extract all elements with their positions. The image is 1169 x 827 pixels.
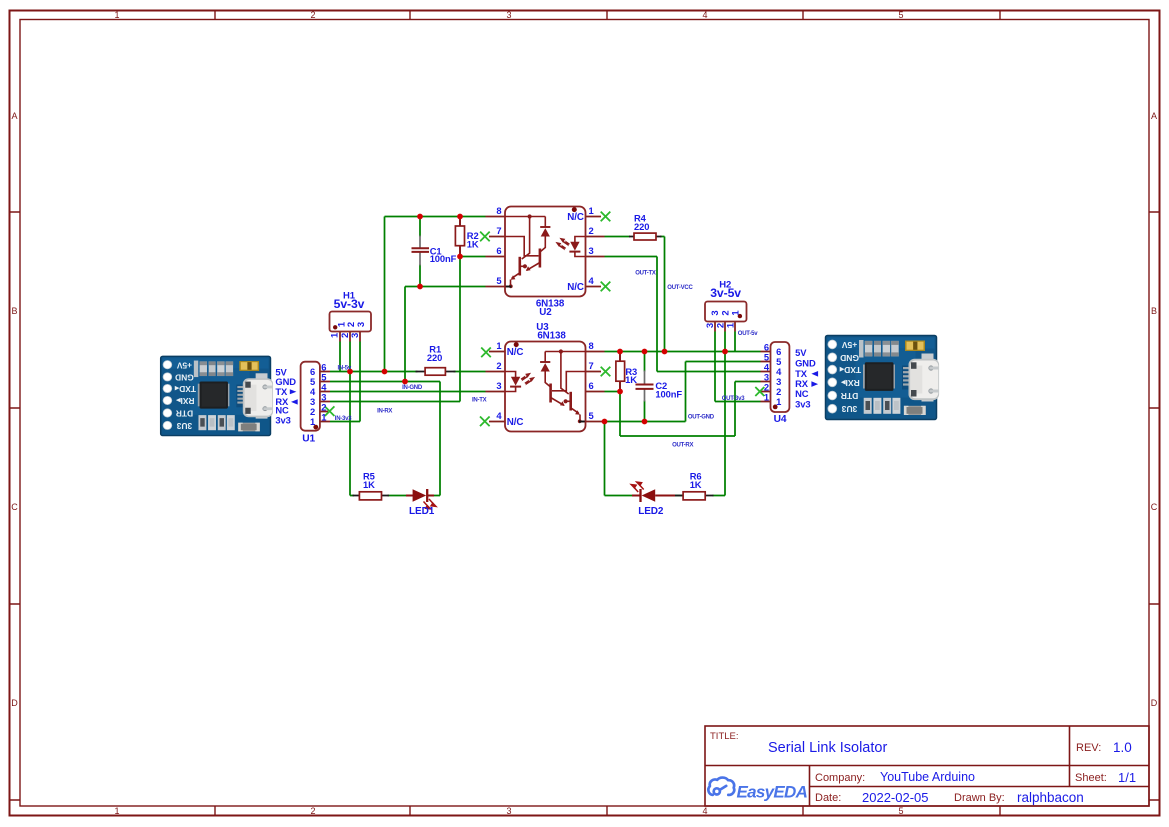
wire U2 pin6 row <box>460 256 486 258</box>
svg-text:4: 4 <box>589 275 595 286</box>
svg-text:7: 7 <box>589 360 594 371</box>
H1 pin digits inside <box>337 321 367 327</box>
U3 pin numbers <box>496 340 502 421</box>
svg-text:4: 4 <box>496 410 502 421</box>
U2 pin numbers <box>496 205 501 286</box>
title block <box>705 726 1149 806</box>
svg-text:1/1: 1/1 <box>1118 770 1136 785</box>
no-connect X U1 pin2 <box>325 406 335 416</box>
svg-text:LED2: LED2 <box>638 506 664 517</box>
wire LED2 bottom run <box>605 495 726 497</box>
U1 pin name numbers <box>310 366 316 427</box>
resistor R4 body <box>634 233 656 240</box>
svg-text:5: 5 <box>589 410 594 421</box>
svg-text:1.0: 1.0 <box>1113 740 1132 755</box>
U1 side labels <box>275 366 296 425</box>
no-connect X U2 pin7 <box>480 232 490 242</box>
wire C1 stem <box>419 217 421 287</box>
svg-text:OUT-5v: OUT-5v <box>738 331 758 337</box>
svg-text:Company:: Company: <box>815 772 865 784</box>
U2 pin1 marker dot <box>572 207 577 212</box>
svg-text:2: 2 <box>310 806 315 816</box>
svg-text:U1: U1 <box>302 433 315 444</box>
svg-text:8: 8 <box>589 340 594 351</box>
wire C2 stem <box>644 352 646 422</box>
svg-text:220: 220 <box>427 352 442 363</box>
net labels <box>335 271 758 449</box>
wire OUT-TX (U2 pin3 to U4 pin4) <box>605 257 761 372</box>
svg-text:D: D <box>1151 698 1158 708</box>
capacitor C1 plates <box>412 248 430 252</box>
capacitor C1 leads <box>419 236 421 266</box>
svg-text:2022-02-05: 2022-02-05 <box>862 790 929 805</box>
wire U2 pin5 row <box>405 286 486 288</box>
svg-text:3: 3 <box>589 245 594 256</box>
U4 side labels <box>795 347 816 409</box>
U3 internals (mirrored) <box>505 349 586 423</box>
svg-text:3: 3 <box>356 322 367 327</box>
svg-text:1K: 1K <box>363 479 375 490</box>
svg-text:IN-3v3: IN-3v3 <box>335 416 352 422</box>
wire IN-RX (U1 pin3 to U2 pin6 riser) <box>330 401 460 403</box>
svg-text:N/C: N/C <box>507 347 524 358</box>
wire riser U2 pin6 to IN-RX <box>459 257 461 402</box>
capacitor C2 leads <box>644 371 646 402</box>
svg-text:EasyEDA: EasyEDA <box>737 783 808 802</box>
svg-text:N/C: N/C <box>567 282 584 293</box>
wire IN-3v3 (U1 pin1 to H1 pin3) <box>330 421 360 423</box>
wire H1 pin3 riser <box>359 342 361 422</box>
wire U2 pin2 to R4 <box>605 236 665 238</box>
EasyEDA logo <box>708 778 807 802</box>
wire LED1 bottom run <box>350 495 440 497</box>
svg-text:OUT-TX: OUT-TX <box>635 271 656 277</box>
U4 pin name numbers <box>776 346 782 407</box>
H2 pin stubs <box>715 322 735 332</box>
svg-text:2: 2 <box>496 360 501 371</box>
resistor R3 body <box>616 361 625 381</box>
resistor R4 leads <box>629 236 662 238</box>
U1 RX arrow <box>291 399 298 404</box>
LED2 <box>631 482 675 502</box>
U2 pin stubs <box>486 217 605 287</box>
svg-text:U4: U4 <box>774 414 787 425</box>
H1 pin digits outside <box>330 332 362 338</box>
svg-text:D: D <box>11 698 18 708</box>
wire IN-5v horizontal (U1 pin6 to R1 to U3 pin2) <box>330 371 486 373</box>
svg-text:GND: GND <box>795 357 816 368</box>
svg-text:8: 8 <box>496 205 501 216</box>
svg-text:C: C <box>11 502 18 512</box>
svg-text:220: 220 <box>634 221 649 232</box>
svg-text:1: 1 <box>764 392 769 403</box>
header H2 body <box>705 302 747 322</box>
U4 pin numbers outside <box>764 342 770 403</box>
svg-text:U2: U2 <box>539 307 552 318</box>
svg-text:5v-3v: 5v-3v <box>334 297 365 311</box>
resistor R5 leads <box>353 495 390 497</box>
wire H2 pin1 riser OUT-5v <box>734 332 736 352</box>
no-connect X U4 pin2 <box>755 387 764 396</box>
svg-text:5: 5 <box>898 806 903 816</box>
wire IN-GND horizontal <box>330 381 440 383</box>
svg-text:A: A <box>11 111 17 121</box>
svg-text:6: 6 <box>589 380 594 391</box>
svg-text:3v3: 3v3 <box>795 399 810 410</box>
N/C labels U3 <box>507 347 524 428</box>
svg-text:1: 1 <box>776 396 781 407</box>
N/C labels U2 <box>567 212 584 293</box>
svg-text:B: B <box>1151 306 1157 316</box>
svg-text:100nF: 100nF <box>430 253 457 264</box>
svg-text:7: 7 <box>496 225 501 236</box>
resistor R2 body <box>455 226 464 246</box>
wire OUT-RX (U3 pin6 to U4 pin3) <box>620 382 761 437</box>
svg-text:1: 1 <box>321 412 326 423</box>
svg-text:Serial Link Isolator: Serial Link Isolator <box>768 740 887 756</box>
svg-text:ralphbacon: ralphbacon <box>1017 790 1084 805</box>
svg-text:B: B <box>11 306 17 316</box>
H2 pin1 marker dot <box>738 314 742 318</box>
U4 RX arrow <box>811 381 818 387</box>
junction dots <box>347 214 728 425</box>
wire OUT-VCC riser (R4 to OUT rail) <box>664 237 666 352</box>
U1 pin1 marker dot <box>313 425 318 430</box>
resistor R6 leads <box>674 495 714 497</box>
connector U4 body <box>771 342 790 412</box>
svg-text:C: C <box>1151 502 1158 512</box>
resistor R1 body <box>425 368 445 376</box>
U3 pin5 black tick <box>579 421 585 423</box>
wire U2 vcc rail top <box>385 216 486 218</box>
wire IN-GND riser to LED1 cathode <box>439 382 441 496</box>
svg-text:OUT-3v3: OUT-3v3 <box>722 396 746 402</box>
wire H1 pin1 riser <box>339 342 341 372</box>
svg-text:A: A <box>1151 111 1157 121</box>
connector U1 body <box>301 362 320 431</box>
svg-text:1K: 1K <box>690 479 702 490</box>
U4 pin stubs <box>761 352 771 402</box>
resistor R1 leads <box>416 371 456 373</box>
svg-text:3: 3 <box>506 806 511 816</box>
svg-text:IN-5v: IN-5v <box>338 365 352 371</box>
U3 pin1 marker dot <box>514 342 519 347</box>
resistor R3 leads <box>619 352 621 392</box>
svg-text:IN-TX: IN-TX <box>472 397 487 403</box>
no-connect X U3 pin4 <box>480 417 490 427</box>
H1 pin1 marker dot <box>333 325 337 329</box>
svg-text:2: 2 <box>589 225 594 236</box>
svg-text:6: 6 <box>496 245 501 256</box>
svg-text:1K: 1K <box>467 238 479 249</box>
svg-text:REV:: REV: <box>1076 742 1101 754</box>
svg-text:1: 1 <box>589 205 594 216</box>
svg-text:TITLE:: TITLE: <box>710 731 739 742</box>
svg-text:4: 4 <box>702 806 707 816</box>
wire U3 pin6 row <box>605 391 621 393</box>
resistor R6 body <box>683 492 705 500</box>
wire U2 pin5 riser to IN-GND <box>404 287 406 382</box>
svg-text:Drawn By:: Drawn By: <box>954 792 1005 804</box>
svg-text:1: 1 <box>726 322 737 328</box>
U4 pin1 marker dot <box>773 405 778 410</box>
wire LED2 left riser <box>604 422 606 496</box>
svg-text:1: 1 <box>114 806 119 816</box>
U3 pin stubs <box>486 352 605 422</box>
svg-text:IN-GND: IN-GND <box>402 385 423 391</box>
H1 pin stubs <box>340 332 360 342</box>
header H1 body <box>330 312 372 332</box>
svg-text:3: 3 <box>350 333 361 338</box>
no-connect X flags <box>325 212 765 427</box>
svg-text:3: 3 <box>506 10 511 20</box>
op-amp U3 optocoupler 6N138 body <box>505 342 586 432</box>
svg-text:3: 3 <box>496 380 501 391</box>
svg-text:1: 1 <box>731 310 742 316</box>
svg-text:N/C: N/C <box>567 212 584 223</box>
module photo left (CP2102 USB-serial) <box>161 356 273 435</box>
svg-text:YouTube Arduino: YouTube Arduino <box>880 770 975 784</box>
svg-text:2: 2 <box>310 10 315 20</box>
svg-text:1: 1 <box>114 10 119 20</box>
no-connect X U2 pin1 <box>601 212 611 222</box>
svg-text:OUT-VCC: OUT-VCC <box>667 285 693 291</box>
svg-text:100nF: 100nF <box>655 389 682 400</box>
wire OUT vcc rail (U3 pin8 to U4 pin6) <box>605 351 761 353</box>
svg-text:Sheet:: Sheet: <box>1075 772 1107 784</box>
U2 internals <box>505 214 586 288</box>
svg-text:OUT-RX: OUT-RX <box>672 442 693 448</box>
LED1 <box>406 489 436 509</box>
wire H2 pin3 riser and OUT-3v3 <box>715 332 761 402</box>
no-connect X U2 pin4 <box>601 282 611 292</box>
svg-text:3v3: 3v3 <box>275 414 290 425</box>
svg-text:6N138: 6N138 <box>537 330 566 341</box>
no-connect X U3 pin7 <box>601 367 611 377</box>
wire IN-TX (U1 pin4 to U3 pin3) <box>330 391 486 393</box>
H2 pin digits outside <box>705 322 736 328</box>
capacitor C2 plates <box>636 385 654 389</box>
svg-text:OUT-GND: OUT-GND <box>688 414 715 420</box>
U3 designators <box>536 322 566 341</box>
wire R6 riser to H2 pin2 <box>724 332 726 496</box>
U1 TX arrow <box>290 389 297 394</box>
svg-text:1K: 1K <box>625 374 637 385</box>
wire OUT-GND (U3 pin5 to U4 pin5) <box>605 362 761 422</box>
svg-text:LED1: LED1 <box>409 506 435 517</box>
module photo right (CP2102 USB-serial) <box>826 336 940 420</box>
U2 designators <box>536 299 565 318</box>
op-amp U2 optocoupler 6N138 body <box>505 207 586 297</box>
resistor R2 leads <box>459 217 461 257</box>
svg-text:Date:: Date: <box>815 792 841 804</box>
svg-text:4: 4 <box>702 10 707 20</box>
U1 pin stubs <box>320 372 330 422</box>
H2 pin digits inside <box>710 310 741 316</box>
svg-text:5: 5 <box>898 10 903 20</box>
U2 pin5 black tick <box>506 286 512 288</box>
svg-text:IN-RX: IN-RX <box>377 409 392 415</box>
resistor R5 body <box>359 492 381 500</box>
svg-text:3v-5v: 3v-5v <box>710 286 741 300</box>
svg-text:1: 1 <box>310 416 315 427</box>
svg-text:5: 5 <box>496 275 501 286</box>
wire U2 vcc rail left riser <box>384 217 386 372</box>
no-connect X U3 pin1 <box>481 348 491 358</box>
U1 pin numbers outside <box>321 362 327 423</box>
U4 TX arrow <box>811 371 818 377</box>
wire H1 pin2 riser to R5 <box>349 342 351 496</box>
svg-text:N/C: N/C <box>507 417 524 428</box>
svg-text:1: 1 <box>496 340 501 351</box>
